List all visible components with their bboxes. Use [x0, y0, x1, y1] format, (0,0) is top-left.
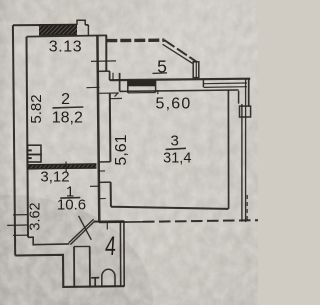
svg-text:5: 5 — [157, 57, 167, 77]
svg-text:5.82: 5.82 — [28, 94, 45, 123]
svg-text:31,4: 31,4 — [163, 150, 191, 166]
svg-text:3.62: 3.62 — [28, 202, 44, 230]
svg-text:2: 2 — [61, 91, 70, 108]
svg-text:4: 4 — [104, 231, 117, 261]
svg-text:3: 3 — [171, 132, 179, 149]
svg-text:5,61: 5,61 — [113, 134, 130, 165]
svg-text:3.13: 3.13 — [49, 38, 83, 55]
svg-text:5,60: 5,60 — [156, 95, 192, 112]
svg-text:10.6: 10.6 — [57, 196, 86, 213]
svg-text:18,2: 18,2 — [52, 110, 83, 127]
